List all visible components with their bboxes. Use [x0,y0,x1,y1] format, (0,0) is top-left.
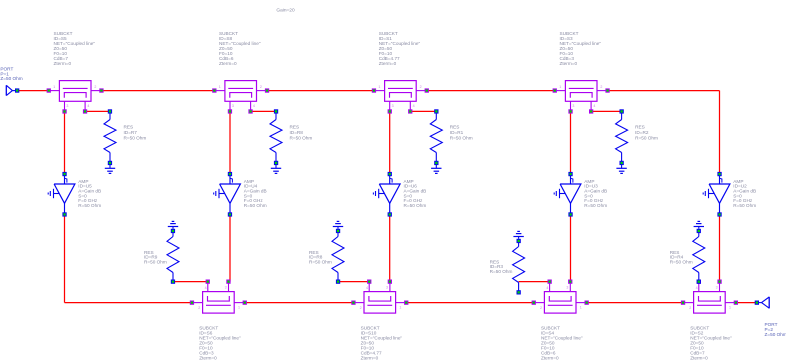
svg-text:1: 1 [399,306,401,310]
svg-text:Zterm=0: Zterm=0 [219,61,237,66]
svg-text:Zterm=0: Zterm=0 [54,61,72,66]
svg-text:RES: RES [635,125,645,130]
svg-text:1: 1 [729,306,731,310]
svg-text:3: 3 [232,104,234,108]
svg-text:2: 2 [198,306,200,310]
svg-text:4: 4 [253,104,255,108]
svg-text:4: 4 [205,286,207,290]
svg-text:2: 2 [420,85,422,89]
svg-text:Zterm=0: Zterm=0 [541,355,559,360]
svg-text:4: 4 [87,104,89,108]
svg-text:1: 1 [580,306,582,310]
svg-text:3: 3 [716,285,718,289]
svg-text:Zterm=0: Zterm=0 [560,61,578,66]
svg-text:3: 3 [572,104,574,108]
svg-text:Zterm=0: Zterm=0 [690,355,708,360]
svg-text:2: 2 [540,306,542,310]
svg-text:Zterm=0: Zterm=0 [199,355,217,360]
svg-text:R=50 Ohm: R=50 Ohm [635,135,658,140]
svg-text:Z=50 Ohm: Z=50 Ohm [0,76,22,81]
svg-text:Z=50 Ohm: Z=50 Ohm [765,332,786,337]
svg-text:Gain=20: Gain=20 [276,8,295,14]
svg-text:3: 3 [66,104,68,108]
svg-text:ID=R1: ID=R1 [450,130,464,135]
svg-text:R=50 Ohm: R=50 Ohm [244,203,267,208]
svg-text:4: 4 [593,104,595,108]
svg-text:RES: RES [450,125,460,130]
svg-text:4: 4 [546,286,548,290]
svg-text:2: 2 [94,85,96,89]
svg-text:RES: RES [290,125,300,130]
svg-text:1: 1 [559,85,561,89]
svg-text:4: 4 [413,104,415,108]
svg-text:R=50 Ohm: R=50 Ohm [309,259,332,264]
svg-text:R=50 Ohm: R=50 Ohm [78,203,101,208]
svg-text:R=50 Ohm: R=50 Ohm [124,135,147,140]
svg-text:2: 2 [360,306,362,310]
svg-text:R=50 Ohm: R=50 Ohm [404,203,427,208]
svg-text:2: 2 [689,306,691,310]
svg-text:1: 1 [219,85,221,89]
svg-text:Zterm=0: Zterm=0 [379,61,397,66]
svg-text:ID=R2: ID=R2 [635,130,649,135]
svg-text:R=50 Ohm: R=50 Ohm [450,135,473,140]
svg-text:1: 1 [238,306,240,310]
svg-text:3: 3 [225,285,227,289]
svg-text:R=50 Ohm: R=50 Ohm [490,269,513,274]
svg-text:R=50 Ohm: R=50 Ohm [144,259,167,264]
svg-text:4: 4 [366,286,368,290]
svg-text:R=50 Ohm: R=50 Ohm [733,203,756,208]
svg-text:R=50 Ohm: R=50 Ohm [670,259,693,264]
svg-text:R=50 Ohm: R=50 Ohm [290,135,313,140]
svg-text:ID=R8: ID=R8 [290,130,304,135]
svg-text:Zterm=0: Zterm=0 [361,355,379,360]
svg-text:4: 4 [696,286,698,290]
svg-text:3: 3 [386,285,388,289]
svg-text:1: 1 [53,85,55,89]
svg-text:2: 2 [260,85,262,89]
svg-text:3: 3 [566,285,568,289]
svg-text:1: 1 [378,85,380,89]
svg-text:ID=R7: ID=R7 [124,130,138,135]
svg-text:RES: RES [124,125,134,130]
svg-text:R=50 Ohm: R=50 Ohm [584,203,607,208]
svg-text:2: 2 [600,85,602,89]
svg-text:3: 3 [392,104,394,108]
